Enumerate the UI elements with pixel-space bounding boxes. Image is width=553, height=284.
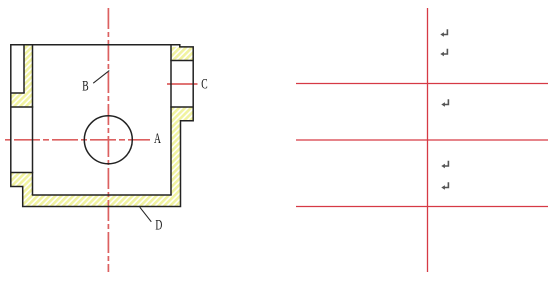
centerline horizontal A axis: [3, 139, 150, 141]
outline outer boundary: [11, 45, 193, 207]
pilcrow return mark 4: [441, 161, 448, 169]
hatch left wall foot: [23, 187, 33, 196]
centerline vertical B axis: [107, 8, 109, 272]
svg-text:D: D: [155, 216, 162, 233]
line flange hole bottom: [170, 106, 193, 108]
hatch left wall lower block: [11, 173, 33, 187]
svg-text:A: A: [154, 130, 161, 147]
line flange hole top: [170, 60, 193, 62]
grid horizontal line 1: [296, 83, 548, 85]
centerline C hole: [167, 83, 198, 85]
pilcrow return mark 1: [440, 29, 447, 36]
hatch right wall strip: [171, 121, 181, 195]
line right wall inner edge: [170, 45, 172, 195]
pilcrow return mark 3: [441, 99, 448, 107]
grid horizontal line 3: [296, 206, 548, 208]
hatch bottom band: [23, 195, 181, 207]
line slot bottom: [11, 92, 25, 94]
line slot right edge: [23, 45, 25, 93]
grid horizontal line 2: [296, 139, 548, 141]
line left hole bottom: [11, 172, 33, 174]
line left hole top: [11, 106, 33, 108]
pilcrow return mark 5: [441, 182, 448, 190]
hatch right flange top block: [171, 47, 193, 61]
leader D: [140, 207, 152, 222]
line left wall inner edge: [32, 45, 34, 195]
svg-text:B: B: [82, 77, 88, 94]
circle center hole: [84, 116, 132, 164]
line cavity floor: [32, 194, 172, 196]
svg-text:C: C: [201, 75, 207, 92]
hatch top-left wall strip: [24, 45, 33, 93]
hatch left wall upper block: [11, 93, 33, 107]
grid vertical axis right view: [427, 8, 429, 272]
hatch right flange lower block: [171, 107, 193, 121]
leader B: [93, 71, 109, 84]
pilcrow return mark 2: [440, 49, 447, 57]
